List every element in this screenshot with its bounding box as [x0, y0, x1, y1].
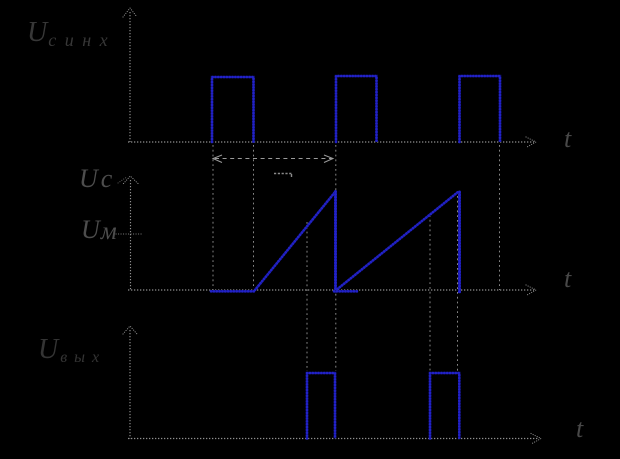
bottom vertical axis	[129, 330, 131, 439]
Um level tick	[116, 233, 142, 235]
sawtooth flat 2	[334, 290, 358, 293]
period T left arrowhead	[213, 155, 222, 163]
dashed connector x=253.5 (pulse1 right / ramp start)	[253, 145, 255, 288]
svg-text:Uм: Uм	[81, 215, 117, 245]
top horizontal axis (t)	[128, 141, 534, 143]
sawtooth drop 1	[334, 192, 337, 293]
label U sync (top-left)	[27, 17, 116, 50]
period T right arrowhead	[324, 155, 333, 163]
dashed connector x=499.5 (pulse3 right)	[499, 145, 501, 290]
period T dimension line (double arrow)	[215, 158, 332, 160]
sync pulse 1	[212, 77, 254, 142]
sawtooth ramp 2	[338, 192, 459, 289]
svg-text:t: t	[576, 414, 584, 443]
sawtooth drop 2	[458, 192, 461, 293]
svg-text:t: t	[564, 124, 572, 153]
middle vertical axis	[130, 180, 132, 290]
sawtooth flat 1	[211, 290, 255, 293]
top vertical axis	[129, 12, 131, 142]
dashed connector x=335.8 (pulse2 left / drop1 / bottom pulse1 right)	[335, 145, 337, 371]
dashed connector x=457.5 (drop2 / bottom pulse2 right)	[457, 196, 459, 371]
sawtooth ramp 1	[255, 192, 336, 291]
dashed connector x=430 (ramp2 crossing / bottom pulse2 left)	[429, 215, 431, 371]
sync pulse 3	[460, 76, 501, 142]
bottom vertical axis arrowhead	[123, 326, 137, 334]
top vertical axis arrowhead	[123, 8, 137, 17]
middle axis arrow tail stroke	[118, 178, 126, 184]
sync pulse 2	[336, 76, 377, 142]
output pulse 1	[307, 373, 335, 439]
svg-text:Uс: Uс	[79, 164, 113, 193]
middle horizontal axis (t)	[128, 289, 534, 291]
dashed connector x=213 (pulse1 left)	[212, 145, 214, 290]
dashed connector x=307 (ramp1 crossing / bottom pulse1 left)	[306, 222, 308, 371]
T label (small dashed mark)	[274, 173, 293, 175]
middle vertical axis arrowhead	[124, 176, 139, 184]
output pulse 2	[430, 373, 459, 439]
middle horizontal axis arrowhead	[526, 285, 536, 295]
svg-text:t: t	[564, 264, 572, 293]
bottom horizontal axis (t)	[128, 438, 539, 440]
T label tick	[291, 174, 293, 177]
top horizontal axis arrowhead	[526, 137, 536, 147]
bottom horizontal axis arrowhead	[531, 434, 541, 444]
